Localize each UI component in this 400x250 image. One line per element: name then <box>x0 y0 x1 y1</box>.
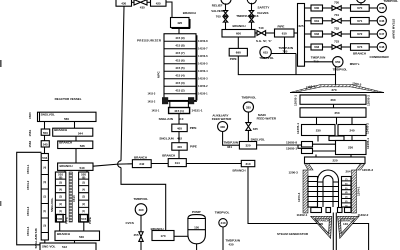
sg outlet plenum cone 140 <box>338 216 359 238</box>
steam dump row 633 <box>305 39 387 51</box>
svg-text:631: 631 <box>314 19 319 23</box>
svg-text:14150-7: 14150-7 <box>198 47 208 51</box>
svg-text:TMDPVOL: TMDPVOL <box>259 56 274 60</box>
wire valve to 320 <box>247 130 249 141</box>
snglvol 512 <box>40 243 96 250</box>
svg-text:1200-4: 1200-4 <box>297 192 301 202</box>
branch 544 <box>53 128 93 136</box>
svg-text:440: 440 <box>220 221 225 225</box>
svg-text:1504-4: 1504-4 <box>26 226 30 236</box>
svg-text:240: 240 <box>349 128 354 132</box>
svg-text:120: 120 <box>318 222 323 226</box>
svg-text:14150-2: 14150-2 <box>198 84 208 88</box>
svg-text:455: 455 <box>134 233 139 237</box>
svg-text:632: 632 <box>314 32 319 36</box>
svg-text:646: 646 <box>379 19 384 23</box>
svg-text:RELIEF: RELIEF <box>212 3 223 7</box>
svg-text:SAFETY: SAFETY <box>258 6 270 10</box>
svg-text:SNGLVOL: SNGLVOL <box>41 112 55 116</box>
svg-text:435: 435 <box>140 6 145 10</box>
stack left node labels <box>148 92 160 112</box>
valve 455 <box>139 232 143 242</box>
svg-text:TMDPVOL: TMDPVOL <box>333 67 348 71</box>
safety tmdpvol circle <box>247 0 256 4</box>
steam dump row 631 <box>305 13 387 25</box>
svg-text:14150-8: 14150-8 <box>198 39 208 43</box>
svg-text:(5): (5) <box>82 183 85 185</box>
svg-text:MSIV's: MSIV's <box>350 62 360 66</box>
sg volume 230 <box>317 117 353 124</box>
svg-text:S.G. 'B', 'C': S.G. 'B', 'C' <box>256 39 272 43</box>
svg-text:PIPE: PIPE <box>88 217 92 224</box>
svg-text:(2): (2) <box>59 204 62 206</box>
relief tmdpvol circle <box>221 0 231 4</box>
svg-text:220: 220 <box>332 159 337 163</box>
svg-text:14150-5: 14150-5 <box>198 62 208 66</box>
svg-text:TMDPJUN: TMDPJUN <box>224 140 239 144</box>
wire 610 down to junction 735 <box>284 37 286 54</box>
svg-text:(2): (2) <box>345 201 348 203</box>
svg-text:BRANCH: BRANCH <box>353 52 366 56</box>
sg feed ring boxes <box>302 142 313 148</box>
svg-text:14150-1: 14150-1 <box>198 92 208 96</box>
branch 540 <box>58 163 93 170</box>
safety valve line <box>251 3 253 30</box>
svg-text:(0): (0) <box>43 225 46 227</box>
tmdpvol 650 msiv <box>333 57 343 67</box>
svg-text:630: 630 <box>314 6 319 10</box>
svg-text:633: 633 <box>314 45 319 49</box>
svg-text:415 (4): 415 (4) <box>175 73 184 77</box>
snglvol 320 <box>239 142 256 150</box>
svg-text:SNGLVOL: SNGLVOL <box>50 198 54 212</box>
pipe 415 (1) <box>169 108 190 114</box>
wire 490 down <box>140 215 142 232</box>
svg-text:342: 342 <box>139 162 144 166</box>
msiv drop to dome <box>335 67 337 85</box>
svg-text:331: 331 <box>227 145 232 149</box>
svg-text:BRANCH: BRANCH <box>57 232 70 236</box>
svg-text:690: 690 <box>236 51 241 55</box>
svg-text:BRANCH: BRANCH <box>233 168 246 172</box>
svg-text:BRANCH: BRANCH <box>134 156 147 160</box>
valve 325 <box>246 123 251 131</box>
edge smudges <box>0 60 2 67</box>
svg-text:430: 430 <box>229 242 234 246</box>
wire 615 to junction <box>271 54 296 75</box>
svg-text:12045-3: 12045-3 <box>362 168 373 172</box>
svg-text:545: 545 <box>43 143 48 147</box>
wires to 530 <box>60 222 84 231</box>
svg-text:(5): (5) <box>345 188 348 190</box>
svg-text:PIPE: PIPE <box>230 57 237 61</box>
svg-text:(1): (1) <box>43 211 46 213</box>
svg-text:415 (7): 415 (7) <box>175 51 184 55</box>
tmdpjun 331 wire <box>223 132 240 146</box>
svg-text:250: 250 <box>334 111 339 115</box>
sg transition box <box>329 136 344 141</box>
pipe 400 <box>172 143 187 151</box>
svg-text:BRANCH: BRANCH <box>233 24 246 28</box>
svg-text:1415-2: 1415-2 <box>148 100 156 103</box>
svg-text:504: 504 <box>42 156 47 160</box>
branch 536 <box>58 141 93 149</box>
svg-text:1415-3: 1415-3 <box>148 92 156 95</box>
svg-text:PIPE: PIPE <box>190 126 197 130</box>
svg-text:SNGLJUN: SNGLJUN <box>159 117 173 121</box>
pipe 405 <box>172 124 187 132</box>
downcomer bypass loop <box>17 152 42 245</box>
sg volume 220 <box>316 155 351 158</box>
svg-text:12305-1: 12305-1 <box>296 123 300 134</box>
sg volume 250 <box>333 104 335 108</box>
svg-text:BRANCH: BRANCH <box>162 154 175 158</box>
svg-text:335: 335 <box>246 105 251 109</box>
svg-text:12405-2: 12405-2 <box>366 123 370 134</box>
cold leg out of SG <box>352 224 368 250</box>
main loop line <box>93 164 241 167</box>
svg-text:310: 310 <box>245 162 250 166</box>
branch 310 <box>241 160 255 166</box>
steam dump row 632 <box>305 26 387 38</box>
svg-text:TMDPVOL: TMDPVOL <box>384 0 399 3</box>
svg-text:(1): (1) <box>82 211 85 213</box>
svg-text:(4): (4) <box>59 188 62 191</box>
valve 740 <box>255 32 257 34</box>
svg-text:STEAM DUMP: STEAM DUMP <box>392 19 396 39</box>
svg-text:FEED WATER: FEED WATER <box>257 117 277 121</box>
svg-text:BRANCH: BRANCH <box>59 141 72 145</box>
tmdpvol 615 circle <box>260 47 271 58</box>
svg-text:BRANCH: BRANCH <box>183 11 196 15</box>
svg-text:230: 230 <box>316 128 321 132</box>
sngljun 410 <box>178 114 180 125</box>
stack bottom junction marks <box>162 97 168 104</box>
svg-text:12605-2: 12605-2 <box>367 95 371 106</box>
svg-text:610: 610 <box>282 32 287 36</box>
svg-text:(6): (6) <box>82 176 86 180</box>
sg boiler cells right <box>342 177 352 208</box>
svg-text:740: 740 <box>258 26 263 30</box>
wire 420 to pressurizer <box>178 28 180 34</box>
sg volume 260 <box>300 95 366 104</box>
sg steam dome 270 <box>290 85 384 93</box>
svg-text:515: 515 <box>81 217 86 221</box>
svg-text:(1): (1) <box>59 211 62 213</box>
svg-text:260: 260 <box>330 98 335 102</box>
pipe 625 steam line <box>298 4 305 67</box>
svg-text:14150-4: 14150-4 <box>198 69 208 73</box>
safety valves pair <box>249 11 253 16</box>
wire 400 to 314 <box>178 150 180 158</box>
svg-text:420: 420 <box>177 21 182 25</box>
svg-text:(3): (3) <box>82 197 85 199</box>
wire 335 to valve <box>247 112 249 123</box>
svg-text:(6): (6) <box>59 176 63 180</box>
svg-text:13605-8: 13605-8 <box>286 141 297 145</box>
svg-text:490: 490 <box>138 208 143 212</box>
downcomer column 504 <box>41 154 48 241</box>
svg-text:536: 536 <box>80 144 85 148</box>
wires 560 down <box>45 122 75 130</box>
svg-text:TMDPVOL: TMDPVOL <box>242 95 257 99</box>
svg-text:705: 705 <box>216 14 221 18</box>
sg downcomer hatch left <box>303 170 308 213</box>
svg-text:13605-1: 13605-1 <box>286 146 297 150</box>
svg-text:648: 648 <box>379 45 384 49</box>
volume 430 <box>116 0 132 6</box>
sg volume 236 <box>336 141 367 155</box>
steam dump row 630 <box>305 0 387 12</box>
branch 550 <box>41 129 50 135</box>
svg-text:TMDPVOL: TMDPVOL <box>215 211 230 215</box>
svg-text:415 (3): 415 (3) <box>175 81 184 85</box>
wire 425 to 420 <box>166 2 172 18</box>
svg-text:11202-1: 11202-1 <box>297 213 308 217</box>
pipe 515 <box>80 215 88 222</box>
svg-text:REACTOR VESSEL: REACTOR VESSEL <box>55 97 82 101</box>
svg-text:430: 430 <box>121 1 126 5</box>
sg downcomer hatch right <box>352 170 357 213</box>
sg inlet plenum cone 120 <box>311 216 332 238</box>
svg-text:673: 673 <box>357 45 362 49</box>
hot leg down to SG <box>248 167 318 224</box>
wire 430 to valve <box>132 1 135 3</box>
branch 530 <box>55 231 100 241</box>
svg-text:425: 425 <box>156 1 161 5</box>
sg shoulder hatch right <box>356 164 365 171</box>
svg-text:140: 140 <box>343 222 348 226</box>
valve 435 <box>134 0 147 5</box>
svg-text:650: 650 <box>335 60 340 64</box>
relief valve line <box>225 3 227 29</box>
svg-text:1504-2: 1504-2 <box>26 180 30 190</box>
svg-text:VALVES: VALVES <box>211 9 223 13</box>
svg-text:PIPE: PIPE <box>65 217 69 224</box>
svg-text:645: 645 <box>379 6 384 10</box>
svg-text:615: 615 <box>263 51 268 55</box>
wire valve to 425 <box>147 1 151 3</box>
svg-text:415 (1): 415 (1) <box>174 109 184 113</box>
stack right node labels <box>198 39 208 95</box>
sg outlet boxes <box>311 208 322 213</box>
wire 610 to 625 <box>294 32 298 34</box>
svg-text:314: 314 <box>175 161 180 165</box>
svg-text:VALVES: VALVES <box>257 11 269 15</box>
spray line from 430 down <box>121 6 166 230</box>
svg-text:530: 530 <box>79 235 84 239</box>
svg-text:150: 150 <box>194 225 199 229</box>
svg-text:(5): (5) <box>59 183 62 185</box>
svg-text:270: 270 <box>331 88 336 92</box>
svg-text:BRANCH: BRANCH <box>54 128 67 132</box>
svg-text:732: 732 <box>334 26 339 30</box>
svg-text:415 (6): 415 (6) <box>175 58 184 62</box>
svg-text:170: 170 <box>160 234 165 238</box>
sg boiler cells left <box>308 177 318 208</box>
svg-text:550: 550 <box>43 131 48 135</box>
svg-text:730: 730 <box>334 0 339 4</box>
svg-text:(3): (3) <box>59 197 62 199</box>
pressurizer 415 stack <box>164 34 196 101</box>
svg-text:12405-1: 12405-1 <box>366 138 370 149</box>
svg-text:(6): (6) <box>345 183 348 185</box>
svg-text:SNG VOL: SNG VOL <box>42 244 56 248</box>
branch 600 to pipe 690 <box>237 37 239 48</box>
svg-text:(3): (3) <box>345 197 348 199</box>
svg-text:415 (9): 415 (9) <box>175 36 184 40</box>
svg-text:1561: 1561 <box>28 129 32 136</box>
u-tube arch <box>318 170 339 207</box>
svg-text:400: 400 <box>177 145 182 149</box>
core column 510 <box>55 172 65 222</box>
pipe 425 <box>151 0 167 6</box>
svg-text:PIPE: PIPE <box>190 144 197 148</box>
svg-text:(2): (2) <box>43 196 46 198</box>
svg-text:540: 540 <box>80 166 85 170</box>
svg-text:512: 512 <box>62 245 67 249</box>
svg-text:BRANCH: BRANCH <box>60 164 73 168</box>
svg-text:SNGLJUN: SNGLJUN <box>159 137 173 141</box>
svg-text:733: 733 <box>334 39 339 43</box>
svg-text:CVCS: CVCS <box>126 221 134 225</box>
svg-text:671: 671 <box>357 19 362 23</box>
wires down <box>45 135 77 141</box>
svg-text:330: 330 <box>220 125 225 129</box>
svg-text:320: 320 <box>245 144 250 148</box>
svg-text:14150-6: 14150-6 <box>198 54 208 58</box>
svg-text:14150-3: 14150-3 <box>198 77 208 81</box>
svg-text:670: 670 <box>357 6 362 10</box>
svg-text:1200-3: 1200-3 <box>289 171 299 175</box>
svg-text:PRESSURIZER: PRESSURIZER <box>137 39 162 43</box>
wire 625 to msiv circle <box>305 61 333 63</box>
svg-text:731: 731 <box>334 13 339 17</box>
svg-text:MPC: MPC <box>157 71 161 79</box>
svg-text:325: 325 <box>253 127 258 131</box>
svg-text:1562: 1562 <box>28 140 32 147</box>
core bypass hatch 1510 <box>69 172 72 222</box>
svg-text:415 (2): 415 (2) <box>175 88 184 92</box>
svg-text:1204-1: 1204-1 <box>357 186 361 196</box>
svg-text:402: 402 <box>177 137 182 141</box>
tmdpvol circle above 670 <box>356 0 365 3</box>
snglvol 560 <box>38 112 97 121</box>
svg-text:625: 625 <box>298 24 303 28</box>
svg-text:204: 204 <box>346 170 351 174</box>
sg shoulder hatch left <box>305 164 314 171</box>
svg-text:STEAM GENERATOR: STEAM GENERATOR <box>277 232 309 236</box>
svg-text:535: 535 <box>57 217 62 221</box>
svg-text:1560: 1560 <box>28 112 32 119</box>
svg-text:647: 647 <box>379 32 384 36</box>
svg-text:(4): (4) <box>43 167 46 170</box>
svg-text:236: 236 <box>348 146 353 150</box>
steam header line <box>238 56 335 75</box>
sngljun 402 <box>178 132 180 143</box>
svg-text:415 (8): 415 (8) <box>175 43 184 47</box>
relief valves pair <box>223 11 227 16</box>
pipe 690 <box>229 48 247 56</box>
svg-text:672: 672 <box>357 32 362 36</box>
svg-text:(7): (7) <box>345 179 348 181</box>
svg-text:14151-1: 14151-1 <box>192 108 203 112</box>
svg-text:TMDPVOL: TMDPVOL <box>134 197 149 201</box>
svg-text:PIPE: PIPE <box>278 25 285 29</box>
sg volume 240 <box>338 125 366 136</box>
svg-text:405: 405 <box>177 126 182 130</box>
svg-text:1504-1: 1504-1 <box>26 164 30 174</box>
svg-text:SNGLVOL: SNGLVOL <box>251 137 265 141</box>
svg-text:(4): (4) <box>345 191 348 194</box>
wire 170 to pump <box>174 235 188 237</box>
svg-text:560: 560 <box>64 117 69 121</box>
svg-text:SNGLJUN 536: SNGLJUN 536 <box>34 228 38 249</box>
svg-text:544: 544 <box>78 132 83 136</box>
svg-text:1415-1: 1415-1 <box>152 109 160 112</box>
wires down <box>45 147 77 163</box>
svg-text:(2): (2) <box>82 204 85 206</box>
svg-text:FEED WATER: FEED WATER <box>212 117 232 121</box>
svg-text:415 (5): 415 (5) <box>175 66 184 70</box>
svg-text:(3): (3) <box>43 182 46 184</box>
pipe 535 <box>56 215 63 222</box>
svg-text:600: 600 <box>236 32 241 36</box>
svg-text:12605-1: 12605-1 <box>293 95 297 106</box>
svg-text:1510: 1510 <box>72 195 76 202</box>
core column 520 <box>79 172 89 222</box>
feedwater line into SG <box>257 145 302 148</box>
sg center channel <box>333 213 336 244</box>
svg-text:410: 410 <box>178 117 183 121</box>
wire crossover hop <box>118 161 121 168</box>
svg-text:PUMP: PUMP <box>192 210 201 214</box>
svg-text:1504-3: 1504-3 <box>26 206 30 216</box>
svg-text:(4): (4) <box>82 188 85 191</box>
branch 545 <box>41 141 49 147</box>
svg-text:CONDENSER: CONDENSER <box>370 55 390 59</box>
